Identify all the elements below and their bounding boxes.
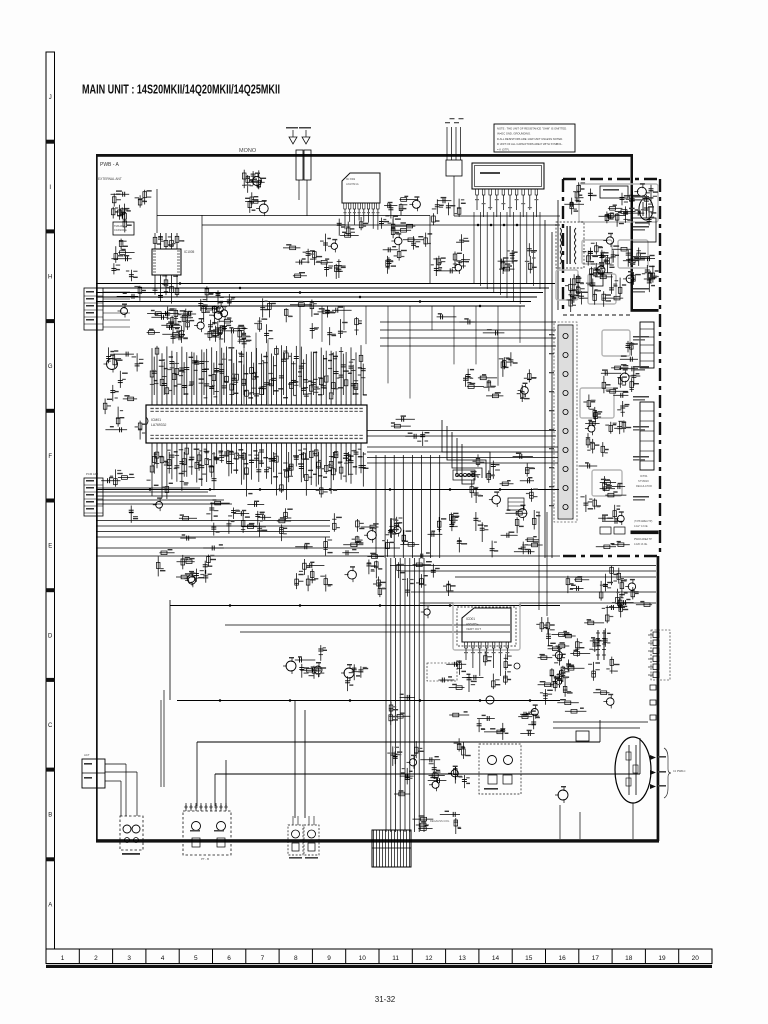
svg-text:1: 1	[61, 955, 65, 962]
svg-text:C: C	[48, 723, 53, 729]
svg-text:PW03 AREA TP: PW03 AREA TP	[634, 538, 652, 541]
svg-text:F: F	[48, 454, 52, 460]
svg-text:20: 20	[692, 955, 700, 962]
svg-text:IC1005: IC1005	[184, 250, 195, 254]
svg-text:PT - B: PT - B	[201, 857, 209, 861]
svg-text:H: H	[48, 274, 52, 280]
svg-text:CJ PWB-C: CJ PWB-C	[673, 769, 686, 773]
svg-text:EXTERNAL ANT: EXTERNAL ANT	[98, 177, 122, 181]
svg-text:2: 2	[94, 955, 98, 962]
svg-text:ICM01: ICM01	[151, 418, 161, 422]
svg-text:5: 5	[194, 955, 198, 962]
svg-text:REGULATOR: REGULATOR	[636, 484, 652, 488]
svg-text:9: 9	[327, 955, 331, 962]
svg-text:IN=DC GND, GROUNDING.: IN=DC GND, GROUNDING.	[497, 132, 531, 136]
svg-text:14x2" 13.0E.: 14x2" 13.0E.	[634, 525, 649, 528]
svg-text:31-32: 31-32	[375, 995, 396, 1004]
svg-text:LA76933J: LA76933J	[151, 423, 167, 427]
svg-text:11: 11	[392, 955, 399, 962]
svg-text:D UNIT OF ALL CAPACITORS ARE P: D UNIT OF ALL CAPACITORS ARE P WITH SYMB…	[497, 142, 563, 146]
svg-text:G: G	[48, 364, 53, 370]
svg-text:AN17821A: AN17821A	[346, 182, 359, 186]
svg-text:ICD01: ICD01	[466, 617, 475, 621]
svg-text:8: 8	[294, 955, 298, 962]
svg-text:VERT OUT: VERT OUT	[466, 627, 481, 631]
svg-text:CASSODE: CASSODE	[114, 228, 127, 232]
svg-text:B: B	[48, 813, 52, 819]
svg-text:TMA1001: TMA1001	[114, 224, 126, 228]
svg-text:PWB - A: PWB - A	[100, 162, 120, 168]
svg-text:10: 10	[359, 955, 367, 962]
svg-text:ICT01: ICT01	[640, 474, 648, 478]
svg-text:AN5265+: AN5265+	[466, 622, 479, 626]
svg-text:ACT: ACT	[84, 753, 90, 757]
svg-text:A: A	[48, 902, 52, 908]
svg-text:19: 19	[658, 955, 666, 962]
svg-text:D ALL RESISTORS ARE 1/4W UNIT: D ALL RESISTORS ARE 1/4W UNIT UNLESS NOT…	[497, 137, 563, 141]
svg-text:18: 18	[625, 955, 633, 962]
svg-text:6: 6	[227, 955, 231, 962]
svg-text:DEGAUSS COIL: DEGAUSS COIL	[430, 819, 450, 823]
svg-text:PCM ADJ: PCM ADJ	[86, 472, 99, 476]
svg-text:STV8020: STV8020	[638, 479, 649, 483]
svg-text:7: 7	[261, 955, 265, 962]
svg-text:MONO: MONO	[239, 148, 257, 154]
svg-text:D: D	[48, 633, 53, 639]
svg-text:J: J	[49, 95, 52, 101]
svg-text:MAIN UNIT : 14S20MKII/14Q20MK: MAIN UNIT : 14S20MKII/14Q20MKII/14Q25MKI…	[82, 82, 280, 97]
svg-text:14LB 13.0E.: 14LB 13.0E.	[634, 543, 648, 546]
svg-text:14: 14	[492, 955, 500, 962]
svg-text:E: E	[48, 544, 52, 550]
svg-text:3: 3	[127, 955, 131, 962]
svg-text:16: 16	[558, 955, 566, 962]
svg-text:15: 15	[525, 955, 533, 962]
svg-text:(7478 AREA TP): (7478 AREA TP)	[634, 520, 652, 523]
svg-text:13: 13	[459, 955, 467, 962]
svg-text:= K (OTF).: = K (OTF).	[497, 147, 510, 151]
svg-text:NOTE : THE UNIT OF RESISTANCE: NOTE : THE UNIT OF RESISTANCE "OHM" IS O…	[497, 127, 567, 131]
svg-text:4: 4	[161, 955, 165, 962]
svg-text:12: 12	[425, 955, 433, 962]
svg-text:17: 17	[592, 955, 600, 962]
svg-text:IC:X01: IC:X01	[346, 177, 356, 181]
